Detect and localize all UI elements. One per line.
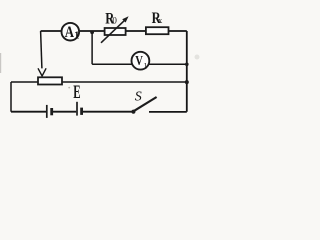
resistor R0 arrow (rheostat diagonal) (101, 20, 125, 42)
wire top (battery+ branch: wiper to A1 to R0 to Rx to right edge) (41, 30, 187, 32)
svg-text:V: V (135, 52, 143, 68)
wire switch to right corner (149, 111, 187, 113)
potentiometer R (slide rheostat body) (38, 77, 62, 84)
wire wiper stem (41, 31, 42, 68)
wire voltmeter branch horizontal (92, 63, 187, 65)
faint smudge right of circuit (195, 55, 200, 60)
svg-text:0: 0 (112, 16, 117, 26)
wire battery to switch (83, 111, 132, 113)
resistor Rx body (146, 27, 169, 34)
svg-text:1: 1 (144, 62, 148, 71)
speck near E (68, 87, 70, 89)
battery E cell2 long plate (76, 102, 78, 116)
svg-text:A: A (65, 24, 75, 42)
wire right edge vertical (186, 31, 188, 112)
wire left edge vertical (10, 82, 12, 112)
battery E cell2 short plate (80, 108, 83, 115)
op meter: ammeter A1 circle (62, 23, 80, 41)
resistor R0 body (105, 28, 126, 35)
battery E cell1 short plate (50, 108, 53, 115)
wire potentiometer row (11, 81, 187, 83)
node junction dot pot row right (185, 80, 189, 84)
node junction dot after A1 (90, 30, 94, 34)
op meter: voltmeter V1 circle (132, 52, 150, 70)
battery E cell1 long plate (46, 105, 48, 118)
scan edge streak (0, 53, 1, 73)
wire between battery cells (53, 111, 76, 113)
svg-text:S: S (135, 90, 142, 105)
switch S lever (134, 97, 157, 111)
switch S pivot (131, 110, 135, 114)
wire voltmeter branch vertical (91, 31, 93, 64)
node wiper arrow (38, 68, 46, 76)
svg-text:1: 1 (74, 31, 79, 42)
node junction dot V branch right (185, 63, 189, 67)
wire bottom left to battery (11, 111, 46, 113)
svg-text:E: E (73, 82, 80, 103)
